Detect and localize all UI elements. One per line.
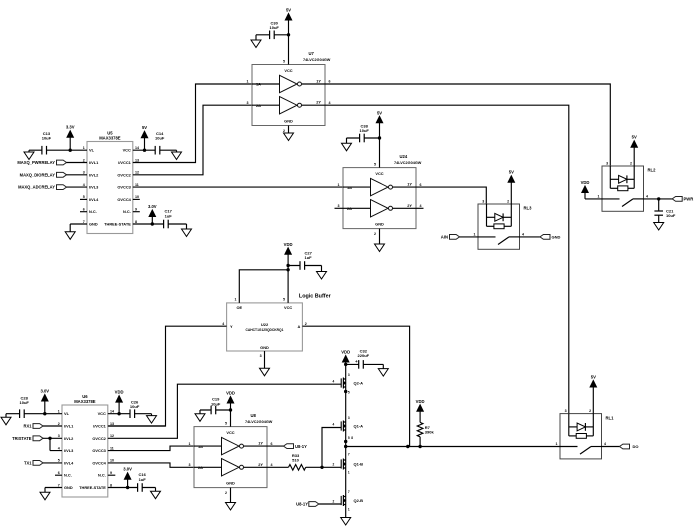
svg-text:1: 1 <box>83 146 85 150</box>
svg-text:DO: DO <box>633 444 639 449</box>
svg-text:1uF: 1uF <box>305 255 313 260</box>
svg-text:3: 3 <box>565 409 567 413</box>
svg-text:1uF: 1uF <box>165 213 173 218</box>
svg-text:I/VCC1: I/VCC1 <box>118 160 131 165</box>
svg-text:5: 5 <box>348 391 350 395</box>
svg-text:Q2-B: Q2-B <box>354 498 364 503</box>
svg-text:VCC: VCC <box>284 305 292 310</box>
svg-text:1: 1 <box>58 410 60 414</box>
svg-text:14: 14 <box>135 146 139 150</box>
svg-text:3: 3 <box>606 161 608 165</box>
svg-text:VDD: VDD <box>115 390 124 395</box>
svg-text:2: 2 <box>283 129 285 133</box>
svg-text:CAHCT1G125QDCKRQ1: CAHCT1G125QDCKRQ1 <box>246 328 284 332</box>
svg-text:3: 3 <box>58 434 60 438</box>
svg-text:2: 2 <box>333 463 335 467</box>
svg-text:4: 4 <box>83 183 85 187</box>
svg-text:1: 1 <box>348 507 350 511</box>
svg-text:10uF: 10uF <box>211 401 221 406</box>
svg-text:6: 6 <box>420 183 422 187</box>
svg-text:13: 13 <box>135 158 139 162</box>
svg-text:RL2: RL2 <box>648 168 657 173</box>
svg-text:VL: VL <box>89 148 95 153</box>
svg-text:MAX3378E: MAX3378E <box>74 399 96 404</box>
svg-text:5V: 5V <box>509 170 514 175</box>
svg-text:12: 12 <box>135 171 139 175</box>
svg-text:74LVC2G04GW: 74LVC2G04GW <box>245 420 273 424</box>
svg-text:U8-1Y: U8-1Y <box>295 444 307 449</box>
svg-text:74LVC2G04GW: 74LVC2G04GW <box>303 58 331 62</box>
svg-text:OVCC2: OVCC2 <box>92 436 106 441</box>
svg-text:MAXQ_DIORELAY: MAXQ_DIORELAY <box>20 172 56 177</box>
svg-text:U7: U7 <box>309 51 315 56</box>
svg-text:4: 4 <box>271 463 273 467</box>
svg-text:TRISTATE: TRISTATE <box>12 436 32 441</box>
svg-text:10uF: 10uF <box>155 136 165 141</box>
svg-text:U24: U24 <box>400 154 408 159</box>
svg-text:3: 3 <box>189 463 191 467</box>
svg-text:5V: 5V <box>377 110 382 115</box>
svg-text:I/VL2: I/VL2 <box>64 436 74 441</box>
svg-text:OVCC4: OVCC4 <box>117 197 131 202</box>
svg-text:N.C.: N.C. <box>64 473 72 478</box>
svg-text:2Y: 2Y <box>258 462 263 467</box>
svg-text:2: 2 <box>58 422 60 426</box>
svg-text:N.C.: N.C. <box>123 209 131 214</box>
svg-text:N.C.: N.C. <box>98 473 106 478</box>
svg-text:OVCC3: OVCC3 <box>117 185 131 190</box>
svg-text:OVCC2: OVCC2 <box>117 172 131 177</box>
svg-text:VDD: VDD <box>341 350 350 355</box>
svg-text:OVCC4: OVCC4 <box>92 460 106 465</box>
svg-text:1: 1 <box>348 470 350 474</box>
svg-text:3: 3 <box>348 373 350 377</box>
svg-text:OE: OE <box>236 305 242 310</box>
svg-text:2: 2 <box>83 158 85 162</box>
svg-text:GND: GND <box>89 222 98 227</box>
svg-text:10uF: 10uF <box>130 404 140 409</box>
svg-text:OVCC3: OVCC3 <box>92 448 106 453</box>
svg-text:3: 3 <box>260 354 262 358</box>
svg-text:TX1: TX1 <box>24 461 32 466</box>
svg-text:10: 10 <box>110 459 114 463</box>
svg-text:Q1-A: Q1-A <box>354 424 364 429</box>
svg-text:I/VL1: I/VL1 <box>89 160 99 165</box>
svg-text:5: 5 <box>58 459 60 463</box>
svg-text:8: 8 <box>351 436 353 440</box>
svg-text:VDD: VDD <box>226 391 235 396</box>
svg-text:2: 2 <box>630 161 632 165</box>
svg-text:390k: 390k <box>425 430 435 435</box>
svg-text:1Y: 1Y <box>407 182 412 187</box>
svg-text:7: 7 <box>348 452 350 456</box>
svg-text:1: 1 <box>474 232 476 236</box>
svg-text:GND: GND <box>284 118 293 123</box>
svg-text:5V: 5V <box>591 375 596 380</box>
svg-text:2: 2 <box>333 499 335 503</box>
svg-text:6: 6 <box>329 80 331 84</box>
svg-text:3: 3 <box>338 204 340 208</box>
svg-text:2A: 2A <box>256 103 261 108</box>
svg-text:13: 13 <box>110 422 114 426</box>
svg-text:Q1-B: Q1-B <box>354 462 364 467</box>
svg-text:VCC: VCC <box>284 68 292 73</box>
svg-text:5: 5 <box>83 195 85 199</box>
svg-text:I/VL2: I/VL2 <box>89 172 99 177</box>
svg-text:2A: 2A <box>198 465 203 470</box>
svg-text:1Y: 1Y <box>258 441 263 446</box>
svg-text:MAXQ_PWRRELAY: MAXQ_PWRRELAY <box>17 160 55 165</box>
svg-text:4: 4 <box>333 380 335 384</box>
svg-text:I/VCC1: I/VCC1 <box>93 424 106 429</box>
svg-text:+: + <box>355 359 358 364</box>
svg-text:VCC: VCC <box>98 411 106 416</box>
svg-text:7: 7 <box>83 220 85 224</box>
svg-text:3.0V: 3.0V <box>40 389 49 394</box>
svg-text:6: 6 <box>58 471 60 475</box>
svg-text:1: 1 <box>598 194 600 198</box>
svg-text:2Y: 2Y <box>407 203 412 208</box>
svg-text:7: 7 <box>348 490 350 494</box>
svg-text:3.0V: 3.0V <box>148 204 157 209</box>
svg-text:1uF: 1uF <box>139 477 147 482</box>
svg-text:3.3V: 3.3V <box>66 125 75 130</box>
svg-text:2: 2 <box>305 322 307 326</box>
svg-text:10: 10 <box>135 195 139 199</box>
svg-text:1A: 1A <box>347 185 352 190</box>
svg-text:1Y: 1Y <box>316 79 321 84</box>
svg-text:THREE-STATE: THREE-STATE <box>104 222 131 227</box>
svg-text:PWR: PWR <box>684 197 694 202</box>
svg-text:7: 7 <box>58 483 60 487</box>
svg-text:VCC: VCC <box>375 171 383 176</box>
svg-text:9: 9 <box>110 471 112 475</box>
svg-text:RL1: RL1 <box>606 415 615 420</box>
svg-text:RX1: RX1 <box>24 424 33 429</box>
svg-text:Q2-A: Q2-A <box>354 381 364 386</box>
svg-text:GND: GND <box>552 235 561 240</box>
svg-text:RL3: RL3 <box>524 206 533 211</box>
svg-text:6: 6 <box>271 442 273 446</box>
svg-text:Logic Buffer: Logic Buffer <box>299 293 332 299</box>
svg-text:5: 5 <box>225 422 227 426</box>
svg-text:2: 2 <box>589 409 591 413</box>
svg-text:4: 4 <box>420 204 422 208</box>
svg-text:5: 5 <box>283 60 285 64</box>
svg-text:8: 8 <box>135 220 137 224</box>
svg-text:4: 4 <box>58 446 60 450</box>
svg-text:GND: GND <box>64 485 73 490</box>
svg-text:2A: 2A <box>347 206 352 211</box>
svg-text:A: A <box>297 324 300 329</box>
svg-text:GND: GND <box>375 221 384 226</box>
svg-text:Y: Y <box>230 324 233 329</box>
svg-text:2: 2 <box>507 199 509 203</box>
svg-text:2: 2 <box>225 491 227 495</box>
svg-text:10uF: 10uF <box>20 400 30 405</box>
svg-text:11: 11 <box>135 183 139 187</box>
svg-text:VL: VL <box>64 411 70 416</box>
svg-text:74LVC2G04GW: 74LVC2G04GW <box>394 161 422 165</box>
svg-text:VCC: VCC <box>226 430 234 435</box>
svg-text:U8: U8 <box>251 413 257 418</box>
svg-text:11: 11 <box>110 446 114 450</box>
svg-text:5V: 5V <box>142 125 147 130</box>
svg-text:1: 1 <box>247 80 249 84</box>
svg-text:I/VL3: I/VL3 <box>89 185 99 190</box>
svg-text:AIN: AIN <box>441 235 448 240</box>
svg-text:10uF: 10uF <box>360 128 370 133</box>
svg-text:1A: 1A <box>256 82 261 87</box>
svg-text:10uF: 10uF <box>270 25 280 30</box>
svg-text:4: 4 <box>222 322 224 326</box>
svg-text:4: 4 <box>522 232 524 236</box>
svg-text:14: 14 <box>110 410 114 414</box>
svg-text:I/VL4: I/VL4 <box>89 197 99 202</box>
svg-text:3: 3 <box>83 171 85 175</box>
svg-text:1A: 1A <box>198 444 203 449</box>
svg-text:MAX3378E: MAX3378E <box>99 135 121 140</box>
svg-text:3.0V: 3.0V <box>123 467 132 472</box>
svg-text:12: 12 <box>110 434 114 438</box>
svg-text:510: 510 <box>292 458 299 463</box>
svg-text:I/VL1: I/VL1 <box>64 424 74 429</box>
svg-text:U8-1Y: U8-1Y <box>296 502 308 507</box>
svg-text:2Y: 2Y <box>316 100 321 105</box>
svg-text:I/VL4: I/VL4 <box>64 460 74 465</box>
svg-text:5: 5 <box>283 298 285 302</box>
svg-text:I/VL3: I/VL3 <box>64 448 74 453</box>
svg-text:3: 3 <box>247 101 249 105</box>
svg-text:VDD: VDD <box>284 242 293 247</box>
svg-text:5V: 5V <box>632 135 637 140</box>
svg-text:220uF: 220uF <box>358 353 370 358</box>
svg-text:GND: GND <box>226 480 235 485</box>
svg-text:MAXQ_ADCRELAY: MAXQ_ADCRELAY <box>18 185 55 190</box>
svg-text:3: 3 <box>482 199 484 203</box>
svg-text:GND: GND <box>260 345 269 350</box>
svg-text:8: 8 <box>110 483 112 487</box>
svg-text:VDD: VDD <box>416 399 425 404</box>
svg-text:5: 5 <box>348 436 350 440</box>
svg-text:2: 2 <box>374 232 376 236</box>
svg-text:VDD: VDD <box>581 180 590 185</box>
svg-text:4: 4 <box>329 101 331 105</box>
svg-text:N.C.: N.C. <box>89 209 97 214</box>
svg-text:5V: 5V <box>286 8 291 13</box>
svg-text:5: 5 <box>374 163 376 167</box>
svg-text:4: 4 <box>646 194 648 198</box>
svg-text:4: 4 <box>333 423 335 427</box>
svg-text:1: 1 <box>189 442 191 446</box>
svg-text:6: 6 <box>83 208 85 212</box>
svg-text:10uF: 10uF <box>666 213 676 218</box>
svg-text:4: 4 <box>604 442 606 446</box>
svg-text:1: 1 <box>338 183 340 187</box>
svg-text:1: 1 <box>235 298 237 302</box>
svg-text:9: 9 <box>135 208 137 212</box>
svg-text:VCC: VCC <box>123 148 131 153</box>
svg-text:1: 1 <box>556 442 558 446</box>
svg-text:3: 3 <box>348 416 350 420</box>
svg-text:10uF: 10uF <box>42 136 52 141</box>
svg-text:U22: U22 <box>261 322 269 327</box>
svg-text:THREE-STATE: THREE-STATE <box>79 485 106 490</box>
